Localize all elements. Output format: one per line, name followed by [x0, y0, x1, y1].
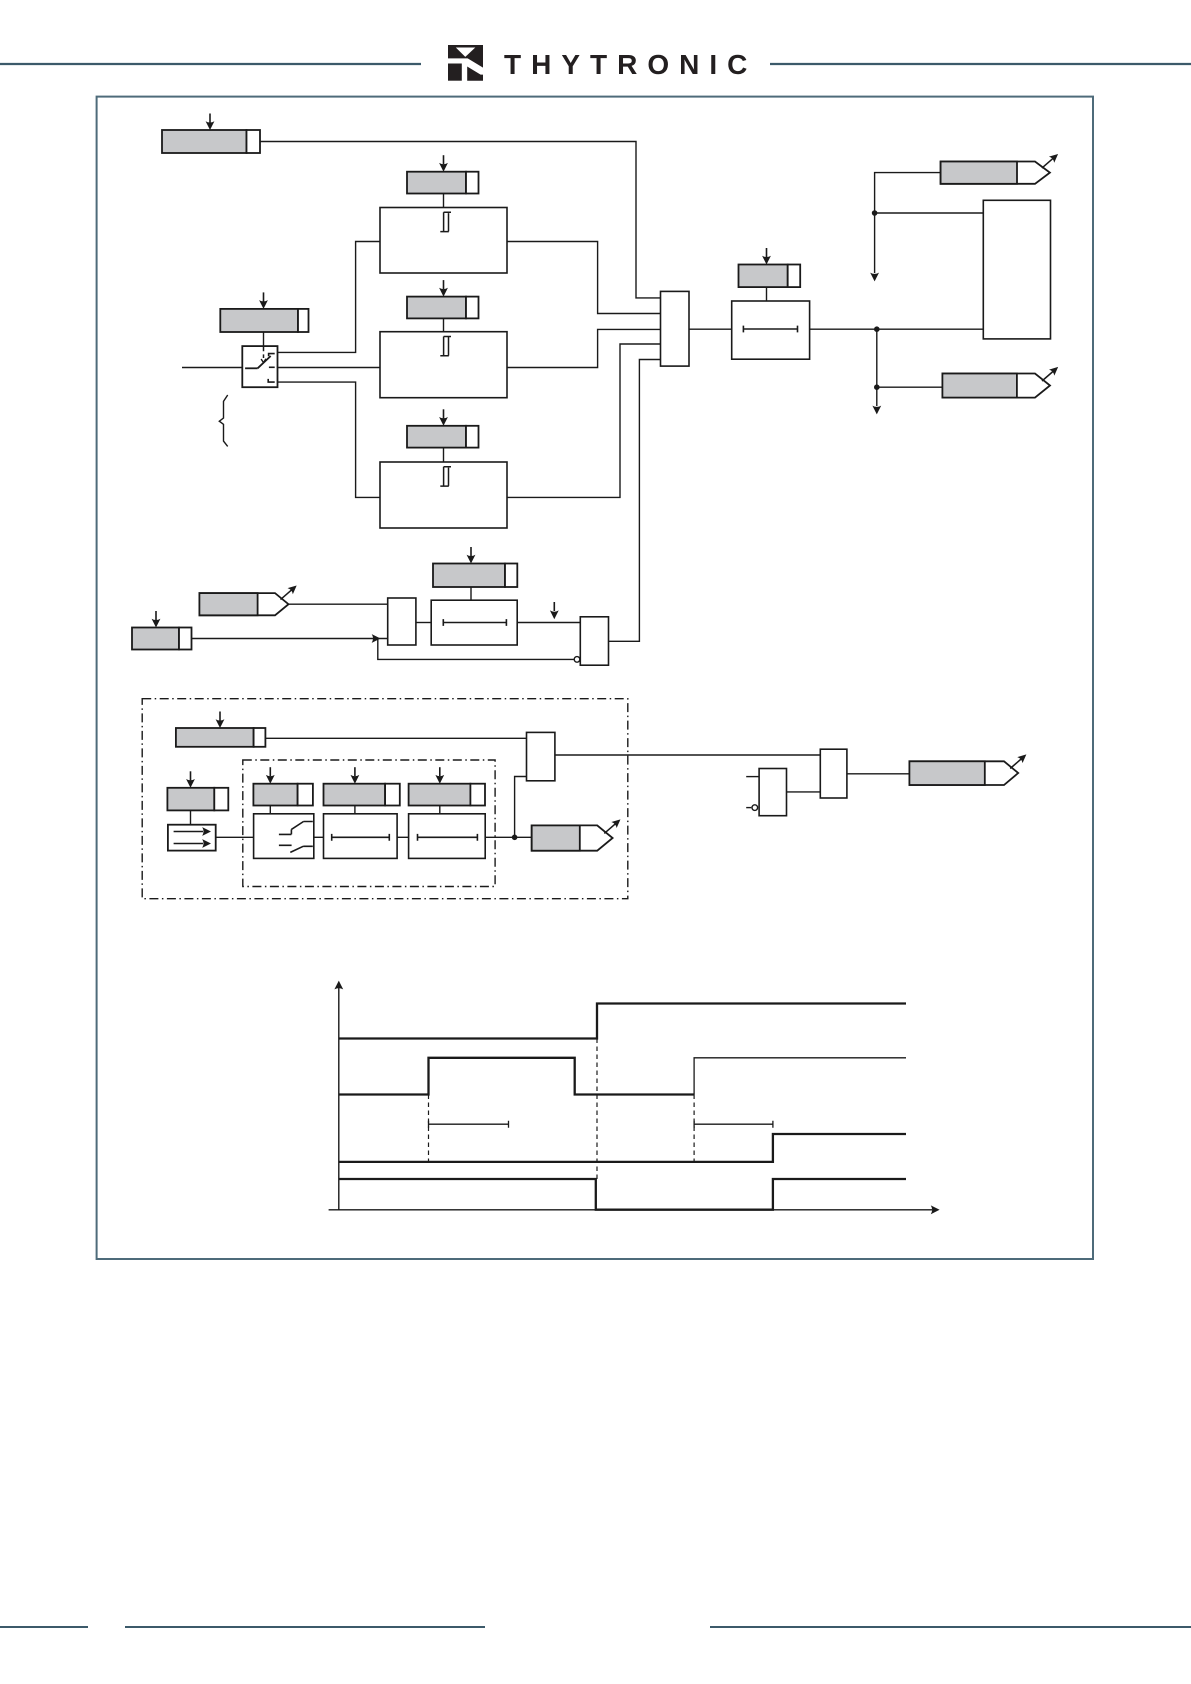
setting box S7 [132, 628, 192, 650]
wire B1 to node and flag F1 [875, 173, 984, 213]
setting box S5 [220, 309, 308, 332]
wire S4 to U3 [443, 448, 445, 462]
arrow into S9 [216, 712, 225, 729]
wire G1 to timer T1 [689, 328, 732, 330]
setting box S11 [253, 784, 313, 806]
timer T2 symbol [443, 619, 506, 626]
wire continuation with arrowhead down [874, 213, 876, 273]
wire T3 to T4 [397, 836, 409, 838]
waveform 4 [339, 1179, 906, 1210]
NE arrow on F3 [281, 583, 300, 600]
junction at F2 branch [874, 384, 880, 390]
wire T1 to block B1 [810, 328, 984, 330]
function block B1 [983, 200, 1050, 339]
D1 arrow 2 [174, 839, 211, 848]
arrow into S10 [186, 771, 195, 788]
wire T4 to flag F4 [485, 836, 532, 838]
wire F3 to AND gate G2 [289, 603, 388, 605]
threshold block U2 [380, 332, 507, 398]
arrow into S12 [351, 767, 360, 784]
output flag F2 [942, 374, 1050, 398]
setting box S12 [324, 784, 400, 806]
wire G5 to B2 [787, 791, 821, 793]
arrow into S2 [439, 155, 448, 172]
wire SW1 to U3 [278, 382, 381, 497]
outer dash-dot group box [142, 699, 628, 899]
selector switch SW1 [242, 346, 277, 387]
NE arrow on F5 [1010, 751, 1029, 768]
junction at B1 output node [872, 210, 878, 216]
threshold block U1 [380, 208, 507, 274]
wire G4 to block B2 [555, 754, 820, 756]
hysteresis symbol in U3 [440, 467, 451, 486]
wire SW1 to U1 [278, 242, 381, 353]
interval marker 1 [429, 1121, 509, 1128]
wire junction to G4 lower input [515, 777, 527, 838]
arrow into S1 [206, 114, 215, 131]
timer T3 symbol [332, 834, 390, 841]
wire G2 to timer T2 [416, 622, 431, 624]
timer T4 [409, 814, 486, 859]
wire G3 to G1 input 5 [609, 360, 661, 642]
waveform 3 [339, 1134, 906, 1162]
dashed guide 1 [428, 1095, 430, 1162]
input wire to SW1 [182, 367, 242, 369]
junction on T4 output [512, 835, 518, 841]
header rule right [770, 63, 1191, 65]
SW1 blade [258, 356, 271, 368]
AND gate G2 [388, 598, 416, 645]
A1 closed contact [279, 822, 313, 835]
setting box S3 [407, 297, 479, 319]
y axis [334, 981, 343, 1210]
AND gate G4 [527, 732, 555, 780]
timer T1 symbol [743, 326, 797, 333]
A1 open contact [279, 845, 313, 852]
direction element D1 [168, 825, 216, 851]
arrow into S6 [762, 248, 771, 265]
G5 input stub 1 [746, 776, 759, 778]
inner dash-dot group box [243, 760, 495, 887]
wire S1 to OR gate G1 input 1 [260, 142, 661, 298]
junction on T1 output [874, 326, 880, 332]
dashed guide 3 [693, 1095, 695, 1162]
brace for input group [219, 395, 227, 446]
arrow into S7 [152, 611, 161, 628]
wire SW1 to U2 [278, 367, 381, 369]
footer rule mid [125, 1626, 485, 1628]
output flag F5 [909, 761, 1018, 785]
wire S10 to direction element D1 [190, 810, 192, 824]
wire S5 to switch SW1 [263, 332, 265, 346]
svg-text:THYTRONIC: THYTRONIC [504, 49, 757, 80]
contact box A1 [254, 814, 314, 859]
x axis [329, 1205, 940, 1214]
wire S13 to timer T4 [439, 806, 441, 814]
waveform 2 [339, 1058, 694, 1095]
timer T2 [431, 600, 517, 645]
header rule left [0, 63, 421, 65]
SW1 contact 2 mark [269, 366, 275, 368]
setting box S9 [176, 728, 266, 747]
NAND gate G3 [580, 617, 608, 665]
free arrow marker on T2 output [550, 602, 559, 619]
arrow into S4 [439, 409, 448, 426]
arrow into S11 [266, 767, 275, 784]
wire S2 to U1 [443, 194, 445, 208]
D1 arrow 1 [174, 827, 211, 836]
setting box S4 [407, 426, 479, 448]
function block B2 [820, 749, 847, 798]
input flag F3 [199, 593, 288, 615]
G5 input stub 2 [746, 807, 751, 809]
wire continuation with arrowhead down [876, 387, 878, 406]
frame border [97, 97, 1093, 1259]
wire S9 to AND gate G4 [265, 737, 526, 739]
arrow into S5 [259, 292, 268, 309]
wire S11 to A1 [269, 806, 271, 814]
G3 input bubble [574, 657, 580, 663]
timer T3 [324, 814, 398, 859]
wire D1 to contact box A1 [216, 836, 254, 838]
footer rule right [710, 1626, 1191, 1628]
output flag F1 [941, 162, 1050, 184]
wire S6 to T1 [766, 287, 768, 301]
timer T4 symbol [418, 834, 478, 841]
SW1 dashed-line arrowhead [261, 359, 266, 363]
logo mark [448, 45, 483, 81]
hysteresis symbol in U1 [440, 212, 451, 231]
setting box S2 [407, 172, 479, 194]
wire U1 to G1 input 2 [507, 242, 661, 314]
NAND gate G5 [759, 769, 786, 816]
wire S7 to G2 and NAND G3 [192, 639, 574, 660]
hysteresis symbol in U2 [440, 337, 451, 356]
wire B2 to flag F5 [847, 773, 910, 775]
wire S12 to timer T3 [354, 806, 356, 814]
wire T2 to NAND G3 [517, 622, 580, 624]
output flag F4 [532, 825, 613, 850]
SW1 control dashed line [263, 347, 265, 358]
setting box S13 [409, 784, 485, 806]
SW1 contact 1 mark [269, 354, 275, 357]
OR gate G1 [661, 291, 690, 366]
wire junction to output flag F2 [877, 329, 943, 387]
G5 input bubble [752, 805, 758, 811]
timer T1 [732, 301, 810, 359]
waveform 1 [339, 1004, 906, 1039]
NE arrow on F4 [604, 816, 623, 833]
interval marker 2 [694, 1121, 773, 1128]
wire S3 to U2 [443, 318, 445, 331]
direction arrowhead on S7 wire [372, 634, 381, 643]
setting box S6 [739, 265, 801, 288]
wire U2 to G1 input 3 [507, 329, 661, 367]
SW1 pole lead [245, 367, 258, 369]
footer rule left [0, 1626, 88, 1628]
setting box S10 [167, 788, 228, 811]
NE arrow on F1 [1042, 151, 1061, 168]
threshold block U3 [380, 462, 507, 528]
wire S8 to T2 [470, 587, 472, 600]
arrow into S8 [467, 547, 476, 564]
NE arrow on F2 [1042, 364, 1061, 381]
wire A1 to T3 [314, 836, 324, 838]
dashed guide 2 [596, 1039, 598, 1180]
waveform 2 thin continuation [694, 1058, 906, 1095]
setting box S1 [162, 130, 260, 153]
arrow into S3 [439, 280, 448, 297]
arrow into S13 [435, 767, 444, 784]
setting box S8 [433, 564, 517, 588]
SW1 contact 3 mark [268, 379, 275, 382]
wire U3 to G1 input 4 [507, 344, 661, 497]
